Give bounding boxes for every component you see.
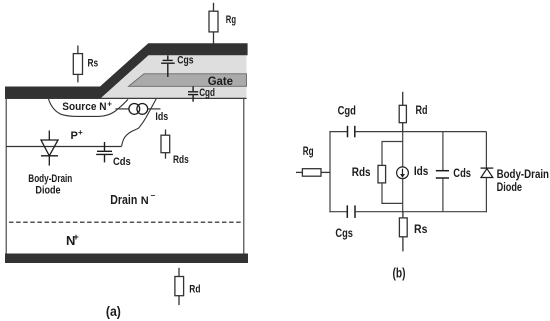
svg-text:Cgd: Cgd [199,87,215,99]
drain metal (black bottom bar) [5,254,248,264]
svg-text:Ids: Ids [155,111,168,123]
svg-text:Ids: Ids [414,164,429,178]
svg-text:Rd: Rd [189,283,200,295]
resistor Rs [73,46,82,83]
svg-text:+: + [107,100,112,109]
current source Ids (b) [397,167,409,179]
svg-text:Body-Drain: Body-Drain [28,173,72,185]
resistor Rds (b) [378,165,386,183]
svg-text:Cgs: Cgs [335,226,353,240]
svg-text:N: N [141,195,149,207]
source N+ trough outline [49,99,129,117]
svg-text:+: + [73,232,79,243]
wire: top rail left segment [329,131,347,133]
wire: bottom rail left segment [329,211,347,213]
oxide light-gray wedge [101,55,247,98]
epi/substrate dashed boundary [9,221,243,223]
svg-text:–: – [151,190,156,200]
svg-text:Rd: Rd [416,103,428,117]
resistor Rd (b) [399,92,406,132]
svg-text:(a): (a) [106,304,121,319]
body right border [243,98,245,254]
svg-text:P: P [71,130,78,142]
svg-text:Rs: Rs [88,57,99,69]
svg-text:Cgd: Cgd [338,104,356,118]
capacitor Cds (a) [96,142,113,162]
channel curve from surface to P+ wire [122,98,157,146]
resistor Rds (a) [161,130,170,159]
svg-text:Source N: Source N [62,101,106,113]
svg-text:Cgs: Cgs [177,55,193,67]
capacitor Cgd (b) [348,126,355,138]
svg-text:(b): (b) [393,266,406,281]
svg-text:+: + [78,128,83,137]
wire: Rds top stub [382,142,403,166]
resistor Rs (b) [399,212,407,252]
wire: Ids branch vertical (bottom) [402,179,404,213]
wire from Ids circles (right) [148,108,161,110]
svg-text:Rs: Rs [414,222,428,236]
body left border [5,98,7,254]
P+ horizontal wire [6,146,121,148]
svg-text:Diode: Diode [35,184,60,196]
wire: top rail right segment [355,131,486,133]
svg-text:Diode: Diode [497,180,523,194]
wire to Ids circles (left) [115,108,128,110]
svg-text:Cds: Cds [453,166,471,180]
capacitor Cgs (b) [347,205,355,218]
capacitor Cgd (a) [188,86,198,101]
resistor Rg [209,3,218,44]
svg-text:Rg: Rg [303,144,314,158]
resistor Rd (a) [175,268,184,305]
body top line [5,97,247,99]
svg-text:Rds: Rds [173,154,189,166]
svg-text:Rg: Rg [226,14,236,26]
body-drain diode (b) [485,132,487,169]
resistor Rg (b) [296,169,330,177]
svg-text:Drain: Drain [110,192,137,207]
svg-text:Cds: Cds [113,156,131,168]
wire: left vertical [329,132,331,213]
svg-text:Body-Drain: Body-Drain [497,167,549,181]
current source Ids (a): two circles [129,104,140,115]
svg-text:Gate: Gate [208,74,234,88]
wire: Ids branch vertical (top) [402,132,404,167]
source metal (black) [5,43,248,98]
svg-text:Rds: Rds [352,165,371,179]
wire: Rds bottom stub [382,183,403,204]
gate poly bar [129,74,247,87]
capacitor Cds (b) [442,132,444,171]
body-drain diode (a) [41,131,58,166]
wire: bottom rail right segment [356,211,488,213]
capacitor Cgs (a) [161,56,175,78]
